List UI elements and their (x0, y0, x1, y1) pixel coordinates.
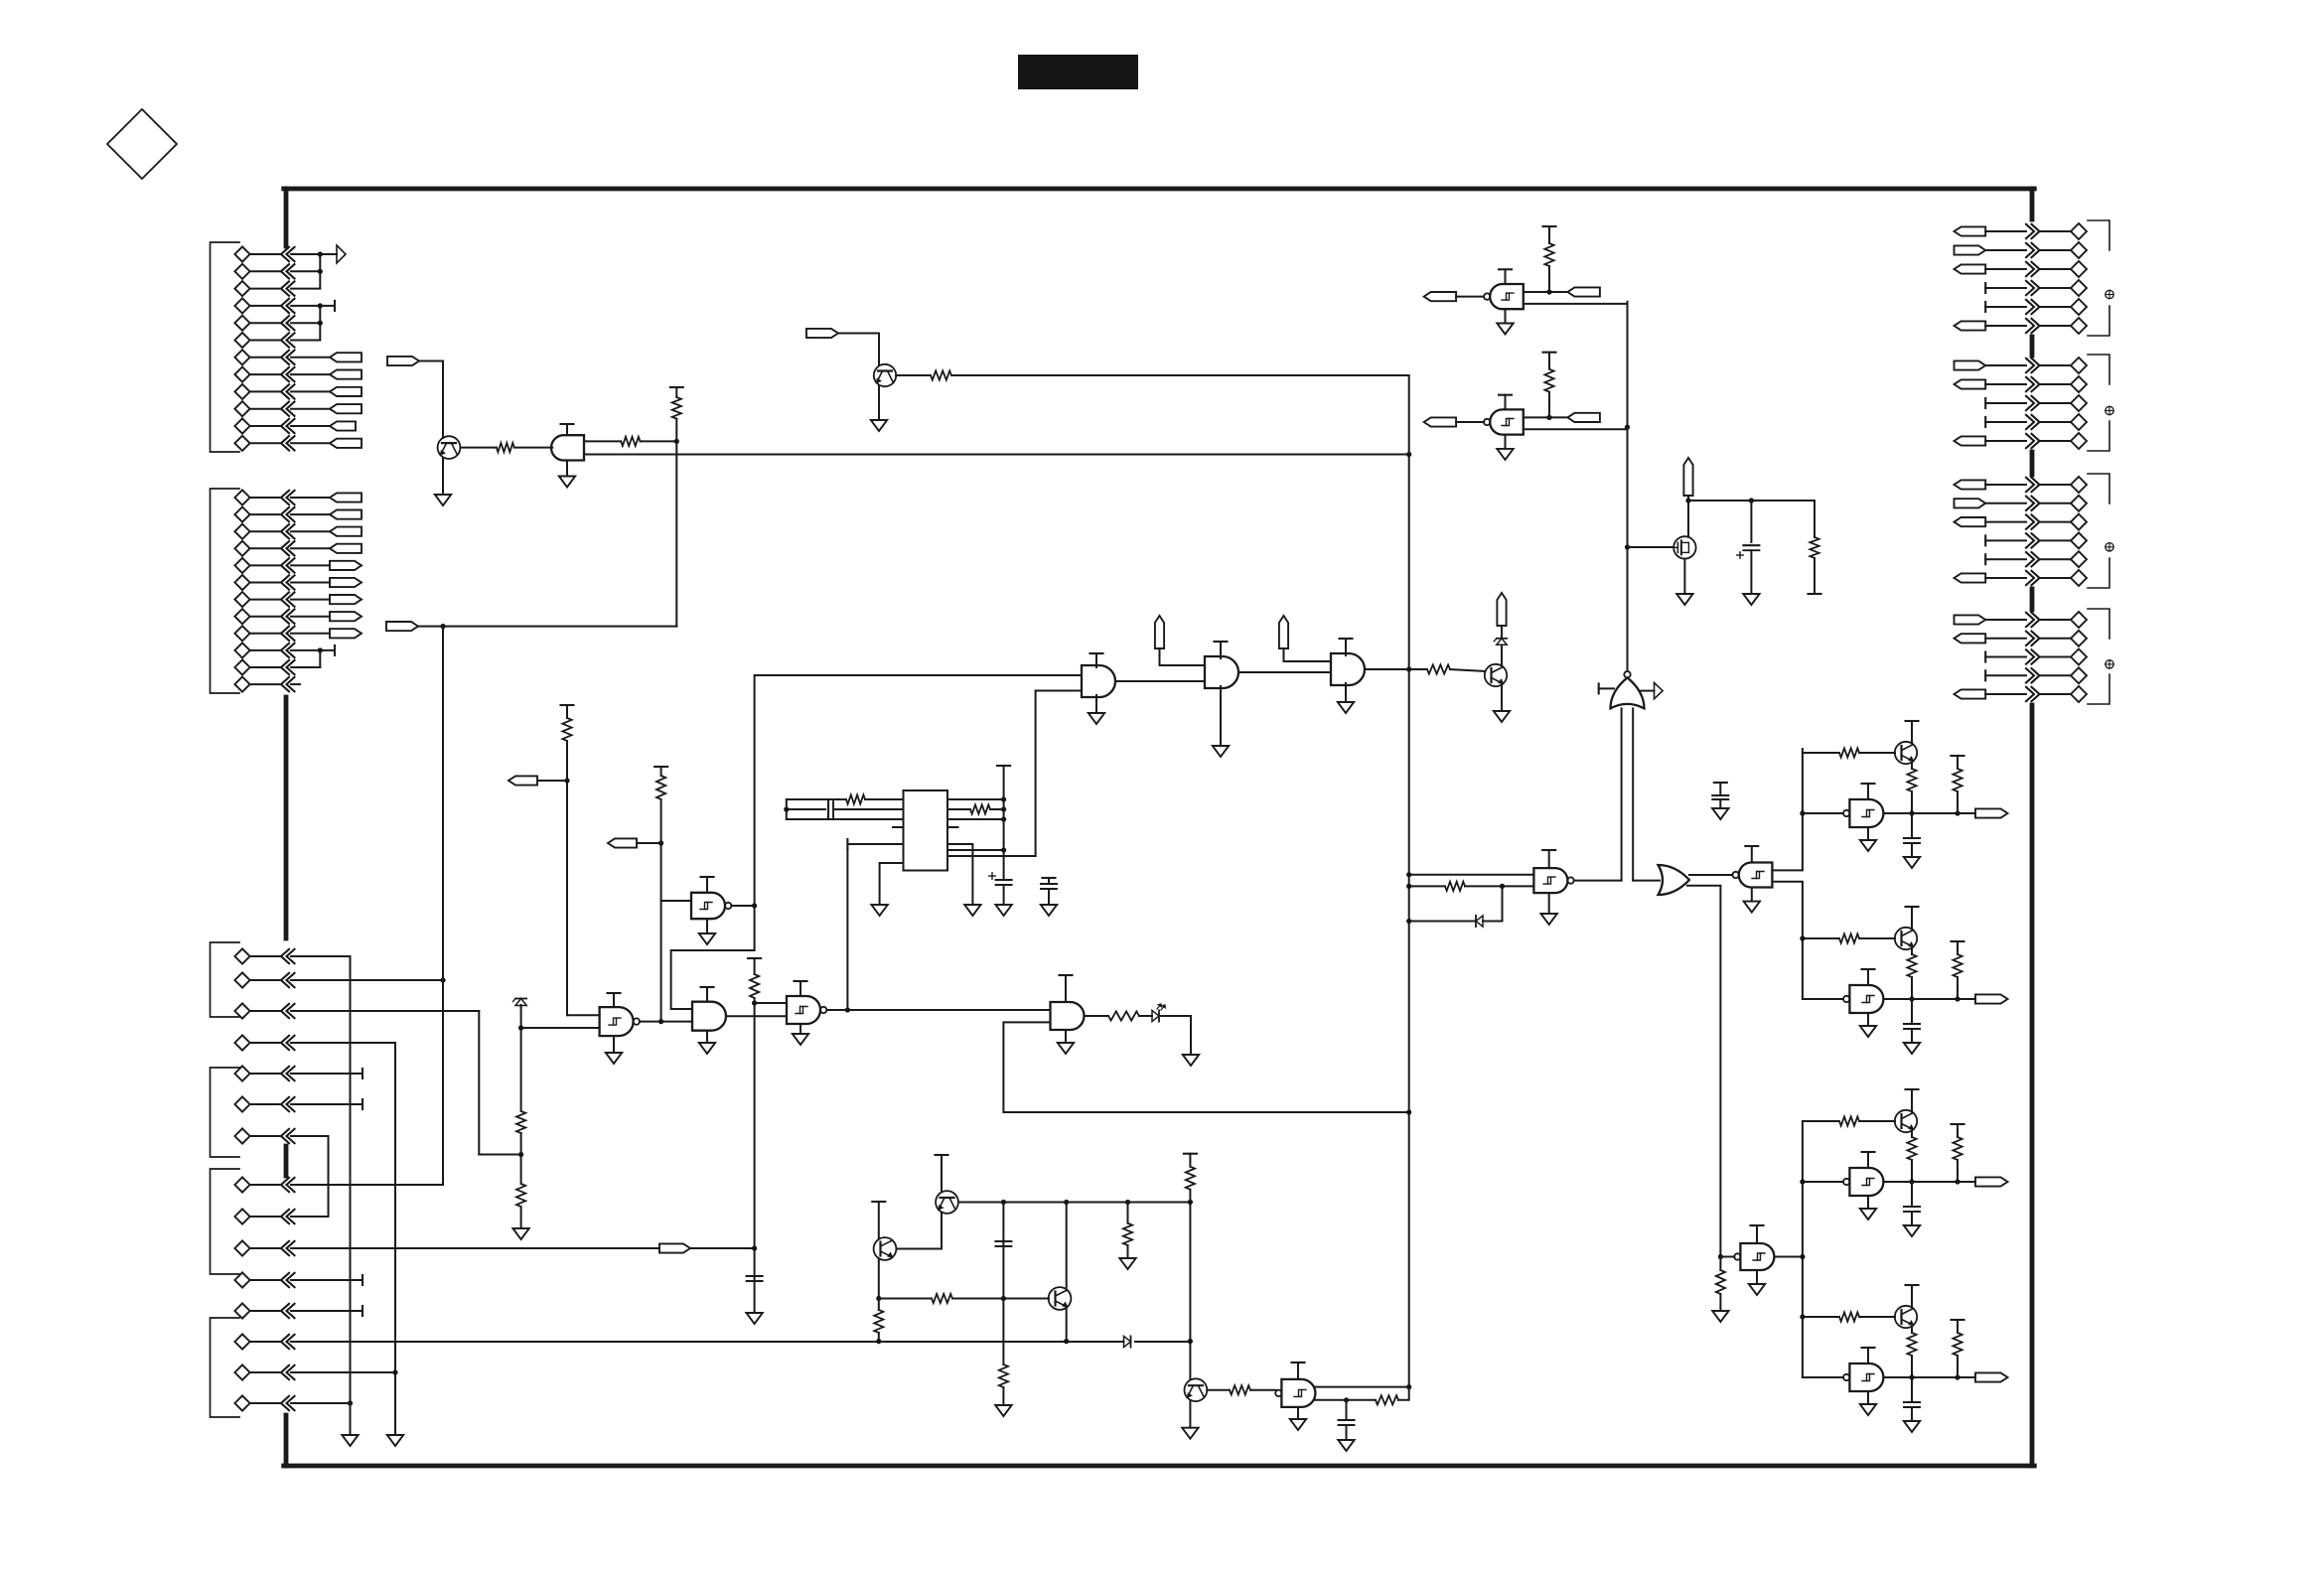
wire drain node east (1688, 500, 1815, 502)
wire C10 to net label (291, 1247, 659, 1249)
schematic border - left dash within group C (284, 1146, 289, 1176)
supply terminal DR3-Rp (1952, 1123, 1964, 1125)
resistor R21 (1186, 1167, 1195, 1190)
wire CN2 pin 1 (1985, 364, 2026, 366)
schmitt NAND gate GT2 (mirrored) (1490, 409, 1524, 434)
wire CN-C pin 4 (251, 1042, 282, 1044)
connector bracket CN1 bottom (2088, 306, 2109, 336)
wire Q1 emitter (442, 458, 444, 495)
gate GT1 supply stub (1505, 269, 1507, 284)
diode D3 (1476, 916, 1483, 927)
net label flag CN4 pin 1 (1955, 615, 1986, 624)
bus entry arrow CN-C pin 8 (281, 1178, 289, 1192)
wire CN-A pin 5 (251, 322, 282, 324)
polarity mark CN1 (2106, 290, 2113, 298)
AND gate G6 (692, 1002, 726, 1031)
wire DR3-Rp stub (1957, 1124, 1959, 1137)
wire CN2 pin 4 (1985, 421, 2026, 423)
wire V571 stub (566, 705, 568, 718)
junction dot DR4 output A (1909, 1374, 1914, 1379)
wire Q2 emitter (878, 386, 880, 421)
wire DR1-C south (1911, 843, 1913, 857)
supply terminal DR4-Rp (1952, 1319, 1964, 1321)
wire V571 vertical (566, 741, 568, 1015)
connector bracket CN-C lower (211, 1318, 240, 1417)
gate G11 supply stub (1751, 846, 1753, 863)
wire C13 after diode (1135, 1341, 1190, 1343)
wire Q4 source south (1683, 559, 1685, 594)
wire CN4 pin 2 (1985, 638, 2026, 640)
gate G12 ground stub (1756, 1270, 1758, 1284)
gate DR3-G ground stub (1867, 1196, 1869, 1209)
wire R12 to Q3 base (1450, 669, 1486, 671)
bus exit arrow CN1 pin 3 (2026, 262, 2034, 276)
bus entry arrow CN-C pin 9 (281, 1210, 289, 1223)
junction dot rail-Q7 (1064, 1200, 1069, 1205)
wire DR1 input (1803, 812, 1843, 814)
wire F3 south to Q2 base (878, 334, 880, 366)
junction dot DR4 output B (1955, 1374, 1960, 1379)
ground symbol G1 (1089, 713, 1104, 724)
supply rail V1010 (1003, 766, 1005, 880)
connector CN-B pin 10 diamond (234, 643, 249, 657)
title block (filled black) (1018, 55, 1138, 89)
wire G9 upper input from bus (1409, 874, 1534, 876)
wire CN-C pin 13 (251, 1341, 282, 1343)
wire CN-A pin 4 (251, 305, 282, 307)
wire DR2-Q emitter (1911, 948, 1913, 954)
connector CN-A pin 9 diamond (234, 384, 249, 399)
bus entry arrow CN-A pin 2 (281, 264, 289, 278)
wire CN-C pin 7 (251, 1135, 282, 1137)
junction dot DR2 base tap (1800, 935, 1805, 940)
ground symbol DR4-C (1904, 1421, 1920, 1432)
terminator bar CN4 pin 3 (1984, 652, 1986, 662)
inverter bubble NOR G8 (1624, 671, 1630, 677)
wire bus V1638 vertical (1627, 302, 1629, 671)
wire G9 output to NOR input A (1574, 880, 1622, 882)
gate G1 supply stub (1095, 653, 1097, 667)
junction dot G7 upper input (752, 1000, 757, 1005)
net label flag CN4 pin 5 (1955, 689, 1986, 698)
resistor R-GT2 (1544, 369, 1553, 392)
connector CN2 pin 5 diamond (2071, 433, 2087, 449)
wire GT2 lower output to bus V1638 (1524, 428, 1628, 430)
wire CN-C pin 9 (251, 1216, 282, 1218)
capacitor C5 (polarized) (1743, 544, 1759, 546)
wire CN-A pin 1 to junction (291, 253, 320, 255)
gate A1 ground stub (566, 461, 568, 477)
bus entry arrow CN-B pin 1 (281, 491, 289, 504)
schematic border - top edge (284, 187, 2035, 192)
diode D4 on C13 line (1124, 1336, 1131, 1347)
wire pin11 to gate G1 input (1036, 690, 1082, 692)
junction dot DR1 input (1800, 810, 1805, 815)
schematic border - bottom edge (284, 1464, 2035, 1469)
junction dot main bus y457 (1406, 452, 1411, 457)
net label flag CN1 pin 1 (1955, 226, 1986, 235)
wire DR4-Q collector (1911, 1285, 1913, 1308)
wire R15 south (1719, 1294, 1721, 1311)
net label flag F6 (vertical) (1155, 616, 1164, 648)
supply terminal DR2-Q collector (1906, 906, 1919, 908)
bus exit arrow CN2 pin 1 (2026, 359, 2034, 372)
wire DR3-Re south (1911, 1160, 1913, 1182)
bus exit arrow CN1 pin 1 (2026, 224, 2034, 238)
ground symbol G3 (1338, 702, 1354, 713)
resistor R5 (562, 718, 571, 741)
connector CN2 pin 3 diamond (2071, 395, 2087, 411)
connector CN1 pin 3 diamond (2071, 261, 2087, 277)
wire CN3 pin 1 (1985, 484, 2026, 486)
net label flag F4 (508, 776, 537, 785)
terminator bar C11 (362, 1275, 363, 1285)
wire cap C5 north (1750, 501, 1752, 542)
terminator bar CN4 pin 4 (1984, 670, 1986, 680)
wire DR1 base branch (1803, 752, 1839, 754)
AND gate G13 (1051, 1002, 1085, 1030)
wire cap column C7 north (1002, 1203, 1004, 1365)
bus entry arrow CN-A pin 1 (281, 247, 289, 261)
wire CN-A pin 3 to junction (291, 288, 320, 290)
polarity mark CN4 (2106, 660, 2113, 668)
wire CN4 pin 3 to diamond (2041, 656, 2071, 658)
wire DR3-Q emitter (1911, 1131, 1913, 1137)
bus exit arrow CN3 pin 6 (2026, 571, 2034, 585)
terminator bar B10 (334, 646, 336, 655)
wire CN-B pin 12 stub (291, 683, 300, 685)
ground symbol Q8 (1182, 1428, 1198, 1439)
ground symbol G9 (1541, 914, 1557, 925)
wire R8 south (520, 1207, 522, 1228)
wire CN3 pin 5 to diamond (2041, 558, 2071, 560)
wire R14 feedback south (1502, 886, 1504, 921)
ground symbol C1 (746, 1313, 762, 1324)
connector CN-B pin 5 diamond (234, 558, 249, 573)
bus entry arrow CN-C pin 3 (281, 1004, 289, 1018)
wire CN-B pin 11 stub (291, 666, 320, 668)
wire R1 to gate A1 (514, 447, 553, 449)
AND gate G3 (1331, 653, 1365, 685)
bus exit arrow CN4 pin 4 (2026, 668, 2034, 682)
wire G13 lower input (1003, 1022, 1408, 1112)
net label flag B9 (330, 629, 362, 638)
schematic border - right dash between groups 2 and 3 (2030, 452, 2035, 475)
resistor DR4-Rp (1953, 1333, 1961, 1356)
wire F6 to gate G2 input (1160, 648, 1206, 665)
junction dot C14 on rail (392, 1369, 397, 1374)
wire V1198 south (1189, 1190, 1191, 1379)
ground symbol LED (1183, 1055, 1199, 1066)
IC U1 pin 6 wire (947, 798, 1004, 800)
resistor DR1-Rb (1839, 748, 1859, 757)
junction dot A5 (318, 321, 323, 326)
bus exit arrow CN3 pin 4 (2026, 533, 2034, 547)
wire R2 to node V681 (641, 440, 677, 442)
wire CN2 pin 3 to diamond (2041, 402, 2071, 404)
wire C1 to ground rail (291, 955, 351, 957)
wire CN-C pin 12 (251, 1310, 282, 1312)
transistor Q3 (1485, 664, 1507, 686)
connector CN-A pin 4 diamond (234, 298, 249, 313)
connector CN-C pin 3 diamond (234, 1003, 249, 1018)
ground symbol R19 (1119, 1258, 1135, 1269)
transistor Q2 (874, 364, 896, 386)
gate G13 ground stub (1065, 1030, 1067, 1043)
gate G8 right buffer triangle (1642, 690, 1655, 692)
junction dot DR2 output A (1909, 996, 1914, 1001)
ground rail wire C1 (350, 956, 352, 1435)
wire DR1-Q emitter (1911, 763, 1913, 769)
connector CN3 pin 3 diamond (2071, 514, 2087, 530)
wire C14 to rail 2 (291, 1371, 395, 1373)
ground symbol DR2-C (1904, 1043, 1920, 1054)
gate G5 ground stub (613, 1036, 615, 1053)
wire junction bus A1-A3 (319, 254, 321, 289)
junction dot base row (1001, 1296, 1006, 1301)
junction dot G14 output on bus (1406, 1384, 1411, 1389)
wire CN-B pin 11 (251, 666, 282, 668)
connector CN1 pin 6 diamond (2071, 318, 2087, 334)
resistor DR1-Re (1907, 769, 1916, 791)
wire DR3-Q collector (1911, 1089, 1913, 1112)
wire CN1 pin 3 to diamond (2041, 268, 2071, 270)
ground symbol C6 (1719, 799, 1721, 808)
resistor R4 (931, 370, 951, 379)
sheet revision diamond (top-left) (107, 109, 177, 179)
wire CN-B pin 6 (251, 582, 282, 584)
junction dot C15 on rail (348, 1400, 353, 1405)
wire R17 east (952, 1298, 1049, 1300)
bus entry arrow CN-C pin 4 (281, 1036, 289, 1050)
IC U1 pin 10 wire (947, 849, 1004, 851)
wire CN-C pin 3 (251, 1010, 282, 1012)
junction dot DR3 gate input (1800, 1179, 1805, 1184)
wire CN1 pin 1 (1985, 230, 2026, 232)
net label flag A10 (330, 404, 362, 413)
wire F1 east (419, 360, 443, 362)
gate G7 ground stub (799, 1024, 801, 1034)
resistor DR3-Rb (1839, 1116, 1859, 1125)
junction dot rail-cap (1001, 1200, 1006, 1205)
schematic border - left dash above connector group A (284, 189, 289, 246)
wire CN-B pin 4 (251, 547, 282, 549)
net label flag DR1 output (1975, 808, 2008, 817)
resistor R12 (1427, 664, 1450, 673)
wire CN-A pin 11 (251, 425, 282, 427)
wire G8 input A south (1621, 708, 1623, 880)
net label flag F3 (806, 329, 838, 338)
supply terminal DR3-Q collector (1906, 1088, 1919, 1090)
wire DR4-Q emitter (1911, 1327, 1913, 1333)
gate G3 supply stub (1345, 639, 1347, 655)
junction dot pin2 tie (784, 806, 789, 811)
ground symbol DR3-C (1904, 1225, 1920, 1236)
connector CN4 pin 2 diamond (2071, 631, 2087, 646)
supply terminal DR1-Q collector (1906, 720, 1919, 722)
junction dot GT2 on bus V1638 (1625, 425, 1630, 430)
wire CN-B pin 3 (251, 530, 282, 532)
wire CN-A pin 9 to net label (291, 390, 330, 392)
resistor R1 (497, 443, 514, 452)
resistor DR4-Re (1907, 1333, 1916, 1356)
wire F9 to drain node (1687, 496, 1689, 501)
wire C5 to terminator (291, 1073, 363, 1075)
wire CN-C pin 5 (251, 1073, 282, 1075)
ground symbol C8 (1338, 1440, 1354, 1451)
wire A4 to terminator (320, 305, 335, 307)
junction dot DR3 output B (1955, 1179, 1960, 1184)
junction dot Q6 emitter node (876, 1296, 881, 1301)
wire C5 south (1750, 550, 1752, 594)
wire Q8 base to R22 (1207, 1389, 1230, 1391)
connector CN-C pin 14 diamond (234, 1364, 249, 1379)
wire long collector rail Q5 (958, 1202, 1190, 1204)
bus entry arrow CN-C pin 10 (281, 1241, 289, 1255)
wire CN-C pin 15 (251, 1402, 282, 1404)
wire CN-A pin 6 to junction (291, 340, 320, 342)
wire CN1 pin 5 (1985, 306, 2026, 308)
bus entry arrow CN-C pin 1 (281, 949, 289, 963)
wire R23 feedback (1398, 1387, 1409, 1400)
connector CN3 pin 5 diamond (2071, 551, 2087, 567)
wire DR4-Rp stub (1957, 1320, 1959, 1333)
connector bracket CN4 bottom (2088, 674, 2109, 704)
wire Q6 emitter (878, 1260, 880, 1299)
connector CN1 pin 2 diamond (2071, 242, 2087, 258)
resistor R6 (656, 776, 665, 799)
wire CN4 pin 4 to diamond (2041, 674, 2071, 676)
wire C3 south (1003, 885, 1005, 905)
pull-up terminal V681 (670, 386, 683, 388)
ground symbol Q3 (1494, 711, 1510, 722)
wire V681 vertical (675, 419, 677, 627)
bus exit arrow CN1 pin 2 (2026, 243, 2034, 257)
wire G11 lower output south (1772, 882, 1803, 999)
wire R9 south (754, 998, 756, 1313)
supply terminal V571 (561, 704, 574, 706)
transistor Q5 (936, 1191, 958, 1214)
junction dot R20 on C13 line (876, 1339, 881, 1344)
net label flag F1 (387, 357, 419, 365)
gate G12 supply stub (1756, 1225, 1758, 1243)
wire CN-A pin 1 (251, 253, 282, 255)
ground symbol R18 (995, 1405, 1011, 1416)
bus entry arrow CN-C pin 15 (281, 1396, 289, 1410)
connector CN-C pin 12 diamond (234, 1303, 249, 1318)
wire C4 south (1048, 889, 1050, 905)
connector CN-C pin 10 diamond (234, 1240, 249, 1255)
supply terminal C4 (1043, 877, 1056, 879)
bus entry arrow CN-C pin 2 (281, 973, 289, 987)
resistor R7 (516, 1111, 525, 1133)
polarity mark CN3 (2106, 543, 2113, 551)
wire F1 south to Q1 base (442, 361, 444, 439)
wire CN3 pin 4 to diamond (2041, 539, 2071, 541)
wire DR2-Re south (1911, 977, 1913, 999)
ground symbol G6 (699, 1043, 715, 1054)
bus exit arrow CN1 pin 5 (2026, 300, 2034, 314)
gate A1 supply stub (566, 424, 568, 435)
inverter bubble gate GT2 (1484, 419, 1490, 425)
junction dot G9 lower input (1406, 884, 1411, 889)
wire CN3 pin 6 (1985, 577, 2026, 579)
connector CN3 pin 6 diamond (2071, 570, 2087, 586)
wire F3 east (838, 333, 879, 335)
bus entry arrow CN-A pin 4 (281, 299, 289, 313)
wire C15 to rail 1 (291, 1402, 351, 1404)
resistor R13 (1810, 537, 1818, 558)
capacitor C1 plates (747, 1275, 763, 1277)
bus exit arrow CN4 pin 5 (2026, 687, 2034, 701)
net label flag B7 (330, 595, 362, 604)
connector CN-B pin 6 diamond (234, 575, 249, 590)
bus entry arrow CN-B pin 10 (281, 644, 289, 657)
connector bracket CN2 top (2088, 355, 2109, 384)
wire CN4 pin 1 to diamond (2041, 619, 2071, 621)
connector bracket CN-B (211, 489, 240, 693)
bus exit arrow CN2 pin 4 (2026, 415, 2034, 429)
connector CN-C pin 2 diamond (234, 972, 249, 987)
schmitt NAND gate G14 (1281, 1379, 1315, 1407)
wire pin1-pin3 tie (786, 799, 788, 819)
supply terminal V1198 (1184, 1153, 1197, 1155)
gate DR1-G ground stub (1867, 827, 1869, 840)
gate G13 supply stub (1065, 975, 1067, 1002)
bus exit arrow CN3 pin 2 (2026, 497, 2034, 510)
resistor R14 label node dot (1500, 884, 1505, 889)
wire DR4-C south (1911, 1407, 1913, 1421)
gate G9 supply stub (1548, 850, 1550, 868)
bus entry arrow CN-C pin 13 (281, 1335, 289, 1349)
wire DR1-Rp stub (1957, 756, 1959, 769)
wire CN3 pin 4 (1985, 539, 2026, 541)
wire CN-A pin 7 to net label (291, 357, 330, 359)
IC U1 pin 8 wire (947, 818, 1004, 820)
junction dot DR1 output B (1955, 810, 1960, 815)
wire CN-B pin 8 to net label (291, 616, 330, 618)
gate DR1-G supply stub (1867, 784, 1869, 799)
wire CN-B pin 9 to net label (291, 633, 330, 635)
junction dot GT2 pull-up (1546, 415, 1551, 420)
inverter bubble gate GT1 (1484, 293, 1490, 299)
ground symbol G7 (793, 1034, 808, 1045)
net label flag FT1 (1424, 292, 1456, 301)
connector bracket CN1 top (2088, 220, 2109, 250)
terminator bar A4 (334, 301, 336, 311)
gate DR2-G ground stub (1867, 1013, 1869, 1026)
wire CN-B pin 9 (251, 633, 282, 635)
connector CN4 pin 4 diamond (2071, 667, 2087, 683)
transistor DR4-Q (1895, 1306, 1917, 1328)
connector CN-A pin 6 diamond (234, 333, 249, 348)
bus entry arrow CN-A pin 11 (281, 419, 289, 433)
schmitt NAND gate G7 (787, 996, 820, 1024)
ground symbol G5 (606, 1053, 622, 1064)
resistor DR1-Rp (1953, 769, 1961, 791)
net label flag C10 (659, 1243, 690, 1252)
connector CN-C pin 13 diamond (234, 1334, 249, 1349)
junction dot Q4 drain (1685, 498, 1690, 502)
wire junction bus B10-B11 (319, 650, 321, 667)
junction dot G12 input (1718, 1254, 1723, 1259)
wire C7-C9 loop south (328, 1136, 330, 1217)
connector bracket CN2 bottom (2088, 421, 2109, 451)
IC U1 pin 4 terminator (846, 839, 848, 849)
wire DR1-Rb to transistor (1859, 752, 1895, 754)
schmitt NAND gate G5 (600, 1007, 634, 1036)
OR gate G10 (1659, 865, 1690, 895)
